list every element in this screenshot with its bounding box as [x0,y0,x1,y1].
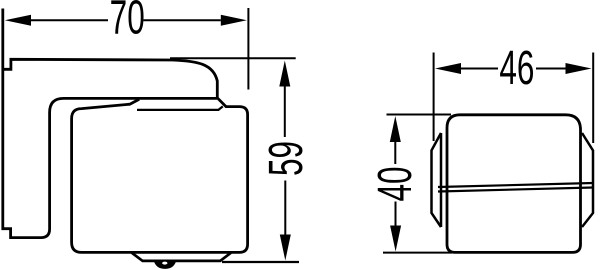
right view: right bracket tab [582,133,593,227]
left view: main outline (top edge, shoulder, right edge, bottom, body left edge, cover seam) [3,59,248,252]
arrowhead 70 right [221,15,247,26]
svg-text:40: 40 [367,166,422,201]
arrowhead 46 right [566,63,592,74]
arrowhead 59 down [280,235,291,261]
dimension 40: bottom baseline [383,252,452,254]
dimension 59: bottom baseline [222,261,299,263]
dimension 40: top extension line [387,114,452,116]
svg-text:70: 70 [110,0,145,44]
left view: cover seam line C [137,106,223,110]
left view: retaining lug notch [162,262,167,265]
arrowhead 40 up [390,116,401,142]
dimension 40: line segments [394,141,396,227]
dimension 46: left extension line [433,53,435,142]
arrowhead 59 up [279,61,290,87]
dimension 46: right extension line [592,53,594,144]
dimension 46: line [461,68,566,70]
dimension 59: line segments [284,85,287,236]
right view: left tab inner edge [440,133,443,227]
arrowhead 46 left [435,63,461,74]
arrowhead 70 left [5,15,31,26]
right view: lower seam line [438,188,593,192]
dimension 70: right extension line [247,8,249,90]
dimension 70: line [31,19,221,21]
left view: bracket left edge and leg outline [3,9,217,238]
right view: upper seam line [438,183,593,187]
left view: retaining lug arc [154,262,176,269]
svg-text:59: 59 [258,141,313,176]
left view: bottom protruding strip [132,253,231,261]
arrowhead 40 down [390,226,401,252]
right view: main body rounded rect [447,115,581,253]
right view: left bracket tab [432,133,442,227]
dimension 59: top extension line [170,57,296,59]
svg-text:46: 46 [499,40,534,95]
